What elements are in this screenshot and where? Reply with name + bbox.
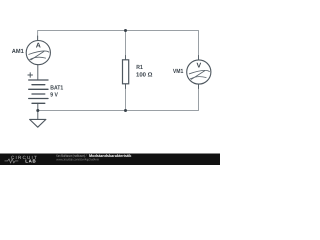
svg-text:www.circuitlab.com/c6vn4qp2wd4: www.circuitlab.com/c6vn4qp2wd4em <box>56 158 99 162</box>
svg-text:9 V: 9 V <box>50 91 58 98</box>
svg-text:VM1: VM1 <box>173 68 184 75</box>
svg-text:100 Ω: 100 Ω <box>136 71 153 78</box>
svg-text:AM1: AM1 <box>12 48 25 55</box>
svg-text:LAB: LAB <box>25 159 36 164</box>
svg-text:V: V <box>196 62 201 69</box>
svg-text:A: A <box>36 43 41 50</box>
svg-text:R1: R1 <box>136 64 143 71</box>
svg-text:BAT1: BAT1 <box>50 84 64 91</box>
